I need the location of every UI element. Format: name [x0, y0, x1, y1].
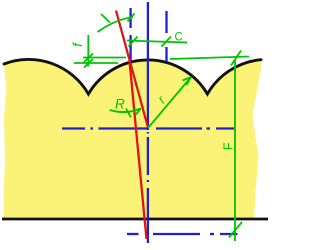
R arc slash tick [126, 109, 131, 118]
angle arc R (green) with arrowhead [110, 109, 141, 113]
right crest extension line (blue) [165, 11, 167, 61]
svg-text:R: R [115, 97, 125, 112]
svg-text:F: F [220, 142, 235, 150]
svg-text:f: f [70, 42, 85, 47]
vertical centerline (blue dash-dot) [147, 2, 149, 243]
dimension f: lower reference line [74, 62, 118, 64]
dimension f: upper reference line (crest top) [83, 57, 126, 59]
dimension F: top slash tick [231, 51, 241, 66]
dimension F: bottom slash tick [229, 222, 242, 238]
root base line (black) [2, 218, 268, 221]
left crest extension line (blue) [129, 8, 131, 61]
angle arc top slash tick [101, 14, 110, 23]
bottom reference line (blue dash-dot) [127, 233, 238, 235]
dimension F: vertical dimension line [234, 60, 236, 241]
radius r line with arrowhead [148, 77, 191, 128]
flank line 1 (red, steep) [116, 11, 148, 128]
dimension f: slash ticks [84, 54, 93, 68]
thread profile body (yellow fill) [4, 59, 262, 219]
angle arc (top, green) with arrowhead [98, 17, 134, 32]
horizontal centerline (blue dash-dot) [62, 127, 234, 129]
dimension c: right slash tick [162, 37, 172, 47]
dimension c: left slash tick [129, 37, 138, 47]
dimension c: dimension line [127, 41, 187, 43]
profile crest outline (scalloped arcs) [4, 59, 261, 94]
dimension f: vertical dimension line [87, 35, 89, 67]
flank line 2 (red, long) [130, 61, 147, 239]
svg-text:C: C [175, 32, 183, 44]
crest top reference line (green, right) [170, 57, 249, 60]
